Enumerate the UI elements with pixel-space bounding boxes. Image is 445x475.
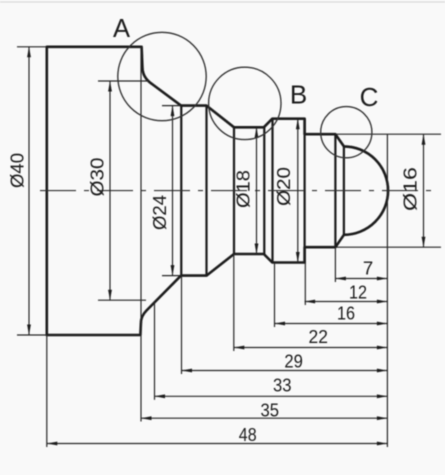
svg-text:Ø20: Ø20 <box>274 167 294 206</box>
svg-text:7: 7 <box>363 258 373 279</box>
svg-text:35: 35 <box>261 399 280 420</box>
svg-text:Ø30: Ø30 <box>88 158 108 197</box>
svg-text:29: 29 <box>284 351 303 372</box>
svg-text:12: 12 <box>349 281 367 302</box>
svg-text:16: 16 <box>337 302 355 323</box>
svg-text:B: B <box>290 80 307 110</box>
svg-text:33: 33 <box>273 375 292 396</box>
svg-text:Ø16: Ø16 <box>401 167 421 211</box>
svg-text:Ø24: Ø24 <box>150 195 170 230</box>
svg-text:Ø18: Ø18 <box>234 170 254 208</box>
svg-text:C: C <box>360 82 379 112</box>
svg-text:Ø40: Ø40 <box>8 153 28 188</box>
svg-text:A: A <box>113 15 130 43</box>
svg-text:22: 22 <box>309 326 328 347</box>
svg-text:48: 48 <box>239 424 257 445</box>
